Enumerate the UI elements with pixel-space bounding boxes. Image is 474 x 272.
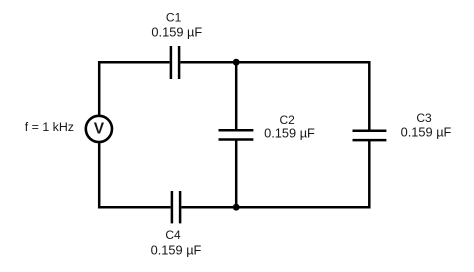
label C1: [151, 10, 202, 39]
wire bottom-right segment: [181, 206, 370, 209]
label C3: [401, 111, 452, 140]
svg-text:f = 1 kHz: f = 1 kHz: [25, 120, 74, 134]
wire right lower: [368, 140, 371, 208]
voltage source V1: [86, 116, 112, 142]
capacitor C1: [171, 46, 179, 79]
svg-text:C4: C4: [165, 228, 181, 242]
label C4: [151, 228, 202, 258]
wire top-left segment: [98, 61, 170, 64]
wire top-right segment: [180, 61, 370, 64]
node junction bottom: [233, 204, 240, 211]
svg-text:V: V: [94, 121, 105, 138]
wire middle upper: [235, 62, 238, 130]
svg-text:0.159 µF: 0.159 µF: [401, 125, 452, 140]
svg-text:C1: C1: [166, 10, 182, 24]
capacitor C3: [353, 131, 387, 140]
wire middle lower: [235, 140, 238, 208]
wire bottom-left segment: [98, 206, 171, 209]
node junction top: [233, 59, 240, 66]
svg-text:0.159 µF: 0.159 µF: [151, 24, 202, 39]
svg-text:0.159 µF: 0.159 µF: [264, 126, 315, 141]
wire right upper: [368, 61, 371, 131]
capacitor C2: [219, 130, 254, 139]
svg-text:0.159 µF: 0.159 µF: [151, 243, 202, 258]
svg-text:C3: C3: [416, 111, 432, 125]
wire left lower: [98, 142, 101, 208]
label C2: [264, 113, 315, 141]
capacitor C4: [172, 191, 180, 223]
wire left upper: [98, 61, 101, 116]
